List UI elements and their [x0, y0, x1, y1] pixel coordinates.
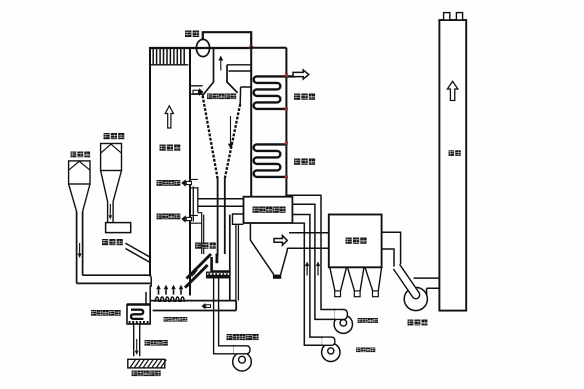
furnace top cover thick line to cyclone junction [149, 47, 252, 49]
APH ash hopper [250, 223, 287, 279]
induced draft fan outlet to chimney [414, 278, 440, 295]
label 过热器 superheater [294, 94, 315, 100]
superheated steam outlet hollow arrow [293, 70, 309, 79]
label 底灰冷却器 bottom ash cooler [91, 310, 121, 316]
dust collector hopper 3 [365, 267, 382, 296]
label 二次风机 secondary fan [358, 318, 379, 323]
label 汽包 steam drum [185, 31, 199, 38]
up arrow in secondary air pipe [316, 262, 320, 276]
upper secondary air hollow left arrow [181, 179, 191, 187]
cyclone standpipe neck [218, 179, 225, 257]
label 省煤器 economizer [294, 159, 315, 165]
label 下二次风 lower secondary air [157, 214, 181, 220]
induced draft fan inlet capsule [393, 264, 419, 298]
secondary air port opening edges [191, 179, 202, 223]
coal feeder body [106, 223, 131, 233]
steam line from drum to backpass junction [203, 32, 251, 46]
label 螺旋冷渣器 spiral slag cooler [132, 371, 161, 377]
down arrow in cyclone cone [228, 116, 233, 149]
loop seal right wall [229, 215, 231, 301]
loop seal distributor comb [207, 272, 230, 278]
node superheater bottom (red) [285, 107, 288, 110]
duct elbow to primary fan inner [292, 223, 322, 345]
label 旋风分离器 cyclone separator [207, 94, 236, 100]
bottom ash cooler box [127, 305, 150, 325]
duct elbow outer to secondary fan [286, 195, 335, 309]
node economizer top (red) [285, 141, 288, 144]
label 除尘器 dust collector [346, 238, 367, 244]
furnace combustion chamber walls [150, 48, 190, 296]
secondary air vertical duct at furnace wall [193, 187, 198, 222]
wall below APH left [236, 224, 239, 300]
duct elbow inner to secondary fan [292, 204, 335, 319]
coal bunker [101, 144, 122, 202]
small arrow in return leg [192, 269, 198, 277]
high pressure air pipes to loop seal [214, 278, 234, 354]
loop seal standpipe hook thick segments [212, 254, 230, 273]
backpass second pass walls [251, 46, 286, 197]
windbox plenum duct [151, 301, 236, 311]
cyclone cone chain edges [203, 96, 241, 179]
air preheater box [244, 197, 293, 223]
flue gas duct APH to dust collector [287, 233, 329, 249]
small duct lines below secondary air duct [198, 213, 204, 254]
spiral slag cooler hatched box [128, 359, 167, 368]
label 燃烧室 combustion chamber [160, 145, 181, 151]
cooling gas drop pipe [134, 324, 140, 356]
dust collector box [329, 215, 382, 268]
dust collector outlet elbows [382, 232, 401, 266]
limestone feed L-duct [77, 212, 152, 284]
node superheater top (red) [285, 73, 288, 76]
air distributor sawtooth [155, 297, 186, 301]
label 空气预热器 air preheater [253, 207, 286, 213]
down arrow in drop pipe [135, 339, 139, 355]
cyclone inlet hollow right arrow [193, 88, 204, 96]
chimney [439, 13, 466, 311]
stub duct APH left to loop seal wall [233, 214, 244, 224]
ash cooler coil [131, 310, 143, 319]
cyclone gas outlet chimney walls [203, 48, 238, 96]
label 引风机 induced draft fan [408, 320, 428, 326]
label 烟囱 chimney [449, 150, 461, 156]
secondary air horizontal duct to air preheater [198, 199, 244, 207]
coal feeder tube [108, 202, 114, 223]
superheater coil [254, 76, 296, 109]
node economizer bottom (red) [285, 175, 288, 178]
primary air fan [322, 337, 340, 361]
loop seal return leg slanted duct [185, 254, 211, 288]
thin up arrow in cyclone outlet [218, 56, 223, 71]
label 上二次风 upper secondary air [157, 180, 181, 186]
label 水冷布风板 water cooled distributor [164, 317, 188, 322]
label 高压流风机 HP fluidizing fan [227, 334, 259, 340]
cyclone inlet duct from furnace [191, 86, 204, 94]
plenum duct hollow left arrow [202, 303, 211, 309]
down arrow in coal feeder tube [109, 204, 113, 220]
limestone hopper [69, 161, 90, 212]
flue duct hollow right arrow [274, 236, 287, 246]
high pressure fluidizing fan [233, 346, 252, 371]
distributor up arrows [156, 285, 183, 295]
dust collector hopper 2 [348, 267, 365, 296]
node junction steam line / backpass (red) [249, 45, 253, 49]
up arrow in primary air pipe [305, 262, 309, 276]
label 给煤机 coal feeder [102, 239, 123, 245]
cyclone outlet duct to backpass [227, 65, 251, 71]
label 一次风机 primary fan [356, 348, 375, 353]
economizer coil [254, 144, 287, 177]
ash cooler bottom comb [129, 321, 149, 324]
big hollow up arrow in furnace [165, 106, 173, 128]
down arrow in limestone pipe [78, 243, 82, 258]
label 燃煤仓 coal bunker [104, 133, 125, 139]
lower secondary air hollow left arrow [181, 215, 191, 223]
label 回料阀 return valve [195, 243, 216, 249]
duct elbow to primary fan outer [292, 215, 322, 338]
label 冷却烟气 cooling flue gas [145, 340, 168, 346]
steam drum [196, 39, 209, 56]
hollow up arrow in chimney [447, 81, 457, 100]
induced draft fan volute [404, 287, 427, 310]
dust collector hopper 1 [330, 267, 347, 296]
coal chute to furnace [126, 243, 152, 263]
furnace top hatched band [150, 49, 188, 65]
label 石灰石 limestone [71, 152, 91, 158]
furnace bottom outlet channel to ash cooler [146, 277, 151, 305]
secondary air fan [334, 310, 352, 334]
cyclone cone right shoulder [240, 87, 251, 104]
